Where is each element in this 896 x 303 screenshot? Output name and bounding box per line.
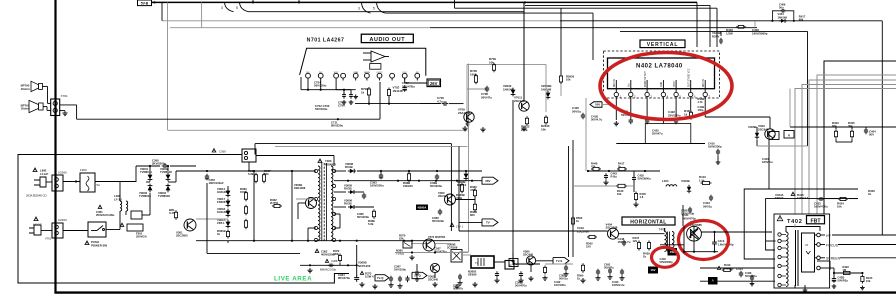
wire [817,75,896,214]
svg-text:V406B: V406B [748,125,757,129]
speaker BP790 [39,83,43,89]
capacitor C443b [605,173,607,175]
svg-text:4.7k: 4.7k [698,100,704,104]
node A box [784,131,794,139]
transformer T402 core [795,230,797,286]
wire [512,253,514,259]
wire [512,100,514,265]
capacitor C433 [818,198,820,200]
svg-text:10k: 10k [566,78,571,82]
svg-text:HV: HV [826,234,831,238]
node N360A [416,205,428,211]
capacitor C368 [328,264,330,266]
wire [404,78,406,83]
resistor R2630b [560,74,562,76]
bridge V3604 [166,186,171,191]
transistor V708 [464,112,474,122]
wire [253,171,255,241]
node DC rail [176,170,316,172]
fuse F360 [80,173,95,192]
resistor R437 [638,241,640,243]
svg-text:1N4148: 1N4148 [503,87,514,91]
wire [573,185,616,187]
diode V3617 [226,201,231,206]
wire [786,227,820,232]
wire [320,264,357,266]
node HORIZONTAL label [622,217,675,225]
svg-text:50V/1u: 50V/1u [572,109,582,113]
capacitor C406 [780,10,782,12]
svg-text:TV: TV [486,220,490,224]
svg-text:1.8: 1.8 [640,195,644,199]
svg-text:50V/47u: 50V/47u [481,95,492,99]
svg-text:5V-B: 5V-B [141,1,149,5]
svg-text:5.6k: 5.6k [368,222,374,226]
transistor V409 [765,129,775,139]
svg-text:10k: 10k [489,60,494,64]
wire [170,27,430,29]
capacitor C436 [751,275,753,277]
transformer T360 [318,159,322,163]
wire [149,166,151,171]
svg-text:3: 3 [221,6,223,10]
wire [411,243,427,245]
wire [54,291,896,293]
svg-text:100k: 100k [470,72,477,76]
svg-text:5: 5 [373,7,375,11]
capacitor C405 [720,38,722,40]
svg-text:50V/R2u: 50V/R2u [838,279,849,283]
svg-text:3: 3 [358,7,360,11]
diode V3605 [350,190,354,194]
capacitor C710 [467,122,469,124]
IC N701 body [300,48,426,75]
wire [60,104,77,106]
svg-text:5: 5 [236,6,238,10]
capacitor C424v [646,118,648,120]
svg-text:2U750: 2U750 [270,201,279,205]
svg-text:50V: 50V [869,133,874,137]
capacitor C705 [343,90,345,94]
svg-text:2SC2688: 2SC2688 [606,226,618,230]
svg-text:150: 150 [586,245,591,249]
wire [802,85,896,215]
wire [458,146,460,231]
resistor R590 [582,263,584,265]
transistor V362 [430,263,439,272]
svg-text:50V/470u: 50V/470u [515,284,527,288]
svg-text:LTV 1: LTV 1 [456,225,464,229]
wire [434,273,436,279]
diode V403B [687,187,691,191]
svg-text:1/2W 3.3: 1/2W 3.3 [797,196,809,200]
diode V361A [226,222,231,227]
wire [161,2,163,20]
resistor R56Z [572,216,574,218]
IC N402 body [608,58,715,89]
wire [467,63,546,65]
bridge V3603 [148,186,153,191]
svg-text:50V/2200p: 50V/2200p [660,260,674,264]
wire [833,273,835,277]
svg-text:GND: GND [661,82,663,87]
wire [146,181,150,183]
wire [835,127,837,129]
wire [619,233,665,235]
transformer T402 primary [786,232,788,287]
diode V2630B [546,93,551,98]
resistor R364 [245,205,247,207]
svg-text:NC: NC [416,72,420,74]
wire [162,20,560,22]
wire [395,252,468,254]
resistor R440 [616,185,618,187]
svg-text:16ohm: 16ohm [21,87,31,91]
resistor R36E [373,209,375,211]
svg-text:160V/220u: 160V/220u [370,184,384,188]
wire [142,214,150,216]
ground [635,202,637,204]
wire [167,166,169,171]
node A2 box [708,277,718,285]
wire [768,140,770,190]
svg-text:MBVAC/100p: MBVAC/100p [320,267,337,271]
svg-text:820: 820 [470,213,475,217]
svg-text:26V: 26V [430,81,438,86]
ground [615,121,617,123]
node 16V box [648,267,658,274]
svg-text:26V: 26V [485,179,490,183]
resistor R709 [493,63,495,65]
svg-text:TVR8048: TVR8048 [158,194,170,198]
node C425 box [645,124,691,144]
svg-text:85V/470u: 85V/470u [338,276,350,280]
svg-text:1N4148: 1N4148 [778,15,788,19]
svg-text:1N4148: 1N4148 [217,210,227,214]
svg-text:X2360: X2360 [58,171,67,175]
capacitor C413 [714,240,716,242]
wire [307,81,309,90]
node rail2 [196,240,460,242]
capacitor C367b [390,276,392,278]
svg-text:50V/47Bu: 50V/47Bu [402,84,415,88]
svg-text:1N4148: 1N4148 [393,89,403,93]
svg-text:ZD5.1: ZD5.1 [217,221,225,225]
svg-text:N360A: N360A [418,205,427,209]
wire [60,110,65,112]
svg-text:25V/220u: 25V/220u [668,113,681,117]
resistor R405 [851,129,853,131]
diode V360B [464,174,469,179]
svg-text:RU3B: RU3B [344,202,352,206]
svg-text:1k: 1k [217,232,221,236]
wire [700,267,775,269]
svg-text:R2PV: R2PV [712,34,720,38]
svg-text:50V/47u: 50V/47u [604,266,614,270]
svg-text:1k: 1k [684,112,688,116]
node AUDIO OUT [361,34,413,42]
transformer T402 outline [774,214,830,288]
svg-text:22k: 22k [399,237,404,241]
svg-text:R-Bu: R-Bu [611,175,618,179]
svg-text:50V/47u: 50V/47u [453,287,464,291]
svg-text:10k: 10k [866,279,871,283]
capacitor C364 [356,245,358,276]
svg-text:50V/1u: 50V/1u [703,204,712,208]
wire [804,285,806,288]
capacitor C372 [496,271,498,273]
transistor V361 [184,219,196,231]
svg-text:C369: C369 [219,150,226,154]
capacitor C36C [439,209,441,211]
svg-text:12k: 12k [633,239,638,243]
wire [201,2,203,27]
svg-text:V403B: V403B [681,179,690,183]
wire [380,171,382,173]
wire [545,263,573,265]
svg-text:VOUT: VOUT [674,80,676,87]
ground [464,126,466,128]
svg-text:1k: 1k [618,165,621,169]
wire [701,231,772,233]
svg-text:X701: X701 [61,94,69,98]
node 5V-Q flag [412,272,427,278]
resistor R430 [690,110,692,112]
svg-text:T401: T401 [659,227,667,231]
capacitor C363 [380,173,382,175]
wire [206,183,208,253]
svg-text:VCC: VCC [402,72,407,74]
wire [42,85,47,87]
node ISL box [668,248,678,256]
resistor R445 [635,192,637,194]
resistor R706 [475,74,477,76]
wire [255,143,451,145]
svg-text:16V/100u: 16V/100u [394,268,406,272]
svg-text:470: 470 [470,188,475,192]
capacitor C712 [370,64,381,70]
component R5A0 box [509,259,518,267]
capacitor C374 [416,270,418,272]
wire [633,171,635,177]
svg-text:1N4148: 1N4148 [217,190,227,194]
svg-text:C368: C368 [331,259,338,263]
bridge V3601 [148,175,153,180]
svg-text:NC: NC [319,72,323,74]
svg-text:2SA1048: 2SA1048 [458,111,470,115]
diode V404B [781,19,785,23]
IC N402 dashed box [604,51,720,98]
wire [795,89,896,215]
wire [572,140,574,257]
capacitor C422 [675,118,677,120]
svg-text:2SD4488: 2SD4488 [294,186,306,190]
svg-text:2SC2688: 2SC2688 [577,229,589,233]
svg-text:2SC2655: 2SC2655 [176,234,188,238]
wire [744,189,858,259]
optocoupler N360Z [451,250,462,263]
svg-text:RU3B: RU3B [344,187,352,191]
svg-text:F360: F360 [80,168,87,172]
resistor R70C [388,88,390,90]
wire [459,251,469,253]
resistor R363 [245,191,247,193]
svg-text:TV-S: TV-S [556,259,562,263]
svg-text:5.6k: 5.6k [248,172,254,176]
capacitor C361 [98,205,102,209]
wire [568,146,570,257]
svg-text:50V/1u: 50V/1u [559,277,568,281]
resistor R502 [587,236,589,238]
wire [298,202,306,204]
svg-text:160V/2.2u: 160V/2.2u [612,283,625,287]
IC N402 pins [615,80,617,92]
svg-text:V761: V761 [45,237,52,241]
resistor R367 [263,173,265,175]
svg-text:50V/470u: 50V/470u [745,274,757,278]
wire [334,170,346,172]
annotation red ellipse [600,53,732,120]
capacitor C36B [436,174,438,176]
wire [820,267,834,269]
node TV flag [482,219,498,226]
resistor R36C [474,188,476,190]
ground [411,255,413,257]
svg-text:250V/2A: 250V/2A [136,235,147,239]
node LIVE AREA boundary [18,155,349,284]
bridge V3602 [166,175,171,180]
svg-text:FR208: FR208 [217,200,226,204]
capacitor C370 [407,276,409,278]
wire [523,2,525,100]
wire [560,84,562,96]
capacitor C581 [565,265,567,267]
node TV-S flag [553,258,569,264]
wire [334,191,346,193]
capacitor C373 [520,271,522,273]
node HV [815,234,817,236]
svg-text:16V/100u: 16V/100u [554,283,566,287]
capacitor C362 [315,249,319,253]
diode V3614 [226,191,231,196]
wire [256,155,334,157]
transistor V580 [526,256,535,265]
wire [420,103,441,105]
svg-text:50V/100u: 50V/100u [432,219,444,223]
svg-text:82k: 82k [264,172,269,176]
capacitor C365 [363,193,365,195]
wire [334,180,482,182]
svg-text:ONE: ONE [353,72,358,74]
svg-text:N402 LA78040: N402 LA78040 [636,64,683,70]
svg-text:AUDIO OUT: AUDIO OUT [369,37,405,43]
resistor R372 [339,254,341,256]
wire [772,11,781,21]
wire [175,171,177,182]
wire [766,240,776,242]
transistor V360B [306,198,317,209]
wire [249,11,525,13]
diode V3606 [350,205,354,209]
resistor R362 [255,173,257,175]
svg-text:HORIZONTAL: HORIZONTAL [630,219,666,225]
svg-text:5A: 5A [97,183,101,187]
wire [462,254,471,256]
op-amp U701a [371,51,385,62]
resistor R424 [838,198,840,200]
wire [168,129,468,131]
svg-text:160V/470u: 160V/470u [814,205,828,209]
svg-text:SHFB: SHFB [364,72,370,74]
wire [523,2,525,100]
svg-text:50V/100u: 50V/100u [315,107,328,111]
node 26V box [427,79,441,87]
capacitor C435 [633,175,635,177]
wire [291,171,293,241]
capacitor C411 [689,207,691,209]
wire [766,199,858,250]
resistor R434 [861,275,863,277]
speaker BP791 [39,103,44,110]
wire [615,97,617,120]
wire [684,251,718,253]
wire [168,181,176,183]
resistor R581 [544,266,546,268]
annotation red circle small [652,247,679,267]
inductor L404 [666,185,677,187]
svg-text:LIVE AREA: LIVE AREA [274,276,312,283]
wire [807,31,809,146]
resistor R422 [841,272,843,274]
plug X2360 mains [33,168,37,172]
svg-text:100p: 100p [698,108,704,112]
node TV-Q flag [375,275,389,281]
resistor R2640 [545,115,547,117]
wire [696,2,698,47]
ground [833,284,835,286]
svg-text:10k: 10k [617,192,622,196]
svg-text:RU3B: RU3B [345,165,353,169]
svg-text:160V/330p: 160V/330p [708,145,722,149]
svg-text:160V/100uF: 160V/100uF [209,181,224,185]
capacitor C410 [717,149,719,151]
diode V3608 [350,169,354,173]
capacitor C443 [621,269,623,271]
svg-text:2SC945: 2SC945 [438,194,449,198]
wire [468,64,470,253]
capacitor C707 [404,85,406,87]
wire [459,221,482,223]
wire [275,145,468,147]
resistor R417b [617,168,619,170]
transistor V405 [687,226,702,241]
ground [582,278,584,280]
wire [296,198,316,200]
svg-text:TVR8048: TVR8048 [160,170,172,174]
svg-text:10k: 10k [837,205,842,209]
svg-text:16ohm: 16ohm [21,107,31,111]
wire [825,198,838,200]
svg-text:68k: 68k [799,18,804,22]
wire [714,232,716,241]
svg-text:N701 LA4267: N701 LA4267 [307,37,345,43]
wire [300,264,320,266]
wire [336,89,351,91]
capacitor C423 [630,118,632,120]
resistor R36B [408,172,410,174]
wire [135,166,137,182]
wire [63,181,80,183]
